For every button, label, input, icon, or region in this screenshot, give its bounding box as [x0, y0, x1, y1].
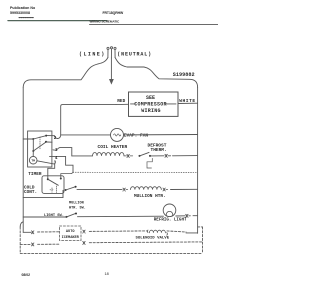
svg-text:TM: TM: [31, 159, 35, 163]
wire evap fan rung: [61, 134, 111, 136]
connector icemaker right: [83, 230, 86, 233]
node timer pivot upper: [32, 138, 34, 140]
svg-text:(LINE): (LINE): [79, 52, 106, 58]
solenoid valve coil: [147, 230, 167, 235]
svg-text:(NEUTRAL): (NEUTRAL): [117, 52, 152, 58]
wire mullion rung rail stub: [23, 190, 63, 197]
wire rail hook to dashed loop: [20, 222, 23, 227]
svg-text:4: 4: [55, 157, 58, 161]
wire dotted run terminal 4 to rail: [73, 171, 198, 173]
cold control switch arm: [48, 179, 59, 185]
wire mullion rung: [77, 189, 122, 191]
cold control box: [42, 176, 64, 194]
icemaker dashed box: [60, 226, 82, 241]
connector light rung: [186, 214, 191, 217]
wire dashed return to right loop: [89, 241, 202, 244]
svg-text:MULLION HTR.: MULLION HTR.: [134, 194, 166, 199]
svg-text:WIRING SCHEMATIC: WIRING SCHEMATIC: [90, 19, 121, 23]
evap fan motor circle: [111, 128, 124, 141]
compressor box U1: [129, 92, 179, 116]
wire dashed loop left vertical: [19, 227, 21, 253]
header publication text: [10, 6, 36, 15]
refrigerator light lamp: [163, 204, 176, 217]
node cold control left terminal: [47, 178, 49, 180]
svg-text:COIL HEATER: COIL HEATER: [98, 144, 128, 150]
label MULLION HTR. SW.: [69, 202, 86, 211]
wire lamp to connector: [176, 215, 185, 217]
svg-text:18: 18: [105, 272, 109, 276]
cold control bellows dashed: [50, 186, 57, 193]
svg-text:COMPRESSOR: COMPRESSOR: [134, 101, 167, 107]
evap fan winding squiggle: [114, 134, 121, 136]
wire light rung: [78, 215, 164, 218]
ground arrow: [109, 79, 114, 85]
connector return right of box: [83, 241, 86, 244]
wire line-side cord: [23, 58, 108, 88]
svg-text:5995330008: 5995330008: [10, 11, 30, 15]
node timer contact 2: [45, 135, 47, 137]
svg-text:THERM.: THERM.: [151, 147, 167, 153]
plug prong pins: [107, 50, 109, 58]
timer switch arm upper: [33, 136, 46, 139]
wire rail stub into timer: [23, 138, 33, 140]
svg-text:RED: RED: [117, 99, 125, 104]
svg-text:SOLENOID VALVE: SOLENOID VALVE: [136, 236, 170, 240]
svg-text:3: 3: [54, 161, 57, 165]
svg-text:WHITE: WHITE: [179, 98, 195, 104]
wire WHITE lead to neutral rail: [178, 102, 198, 104]
plug prong circles: [107, 47, 109, 49]
svg-text:08/02: 08/02: [22, 273, 31, 277]
header right rule: [90, 24, 219, 26]
wire pivot to timer motor: [32, 151, 34, 156]
wire light rung from rail: [23, 216, 66, 218]
defrost thermostat sensing bracket: [147, 158, 152, 168]
svg-text:HTR. SW.: HTR. SW.: [69, 207, 86, 211]
node timer contact 1: [45, 141, 47, 143]
ground lead wire: [110, 58, 112, 79]
svg-text:CONT.: CONT.: [24, 190, 37, 195]
wire defrost rung lead: [72, 155, 93, 157]
timer box: [28, 131, 52, 167]
wire terminal 4 with hook: [50, 156, 74, 172]
wire dashed to icemaker: [38, 231, 60, 233]
label COLD CONT.: [24, 185, 37, 195]
timer switch arm lower: [33, 142, 45, 151]
svg-text:ICEMAKER: ICEMAKER: [62, 236, 80, 240]
defrost thermostat: [139, 155, 141, 157]
wire dash through compressor box: [131, 103, 136, 105]
mullion heater coil: [131, 187, 162, 190]
timer motor TM circle: [29, 156, 37, 164]
wire icemaker feed from rail: [23, 231, 31, 233]
defrost coil heater: [93, 152, 125, 155]
header dotted underline: [19, 17, 34, 19]
wire dashed return to box: [38, 243, 60, 245]
svg-text:SEE: SEE: [146, 95, 155, 101]
connector mullion right: [163, 188, 168, 191]
connector icemaker left: [31, 231, 34, 234]
wire dashed loop right vertical: [202, 227, 204, 254]
svg-text:S199882: S199882: [173, 72, 195, 78]
wire terminal 2 with contact hook: [47, 135, 61, 138]
wire dashed icemaker to solenoid: [89, 230, 147, 233]
compressor box text: [134, 95, 167, 114]
connector mullion left: [123, 188, 128, 191]
node cold control right terminal: [60, 178, 62, 180]
svg-text:TIMER: TIMER: [28, 172, 42, 177]
node timer pivot lower: [32, 150, 34, 152]
svg-text:REFRIG. LIGHT: REFRIG. LIGHT: [154, 219, 187, 223]
wire icemaker return left dashed: [20, 243, 30, 245]
connector return left: [31, 243, 34, 246]
wire cold control right terminal riser: [61, 172, 73, 178]
wire light rung to rail: [193, 215, 198, 217]
wire dashed loop bottom: [20, 252, 202, 254]
svg-text:FRT18QRHW: FRT18QRHW: [103, 11, 124, 15]
svg-text:Publication No: Publication No: [10, 6, 36, 10]
label DEFROST THERM: [148, 143, 167, 154]
timer mechanical link dashed: [39, 137, 41, 150]
svg-text:MULLION: MULLION: [69, 202, 84, 206]
svg-text:EVAP. FAN: EVAP. FAN: [124, 133, 149, 139]
wire defrost rung to rail: [173, 155, 198, 157]
wire neutral-side cord: [115, 58, 198, 88]
left line rail: [22, 88, 24, 233]
svg-text:WIRING: WIRING: [141, 108, 161, 114]
connector defrost right: [165, 154, 171, 157]
wire terminal 1 with hook: [47, 142, 72, 156]
wire solid stub to rail: [186, 232, 198, 234]
wire compressor riser from timer terminal 2: [61, 105, 116, 135]
connector defrost left: [124, 154, 133, 157]
wire RED lead into compressor box: [116, 103, 129, 105]
wire timer pivot link: [32, 139, 34, 151]
svg-text:LIGHT SW.: LIGHT SW.: [44, 214, 64, 218]
wire mullion rung to rail: [171, 188, 198, 190]
header left rule: [8, 20, 107, 22]
wire evap fan to rail: [124, 134, 198, 136]
svg-text:AUTO: AUTO: [66, 230, 75, 234]
mullion heater switch: [65, 189, 67, 191]
label AUTO ICEMAKER: [62, 230, 80, 240]
light switch: [66, 216, 68, 218]
wire timer motor to terminal 3: [37, 161, 55, 179]
right neutral rail: [197, 87, 199, 233]
wire dashed stub to rail top right: [198, 226, 203, 228]
wire dashed solenoid to rail: [167, 231, 186, 232]
